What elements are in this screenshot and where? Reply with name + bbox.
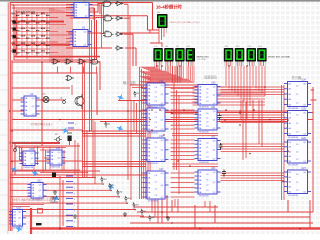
svg-text:U16: U16 [159,135,164,138]
svg-text:先行器: 先行器 [292,75,302,80]
svg-text:2: 2 [74,188,75,190]
svg-text:U24: U24 [302,79,307,82]
svg-text:输入控制: 输入控制 [123,80,136,85]
svg-text:3: 3 [74,194,75,196]
svg-text:a: a [75,124,76,126]
svg-text:U15: U15 [159,105,164,108]
svg-text:U30: U30 [29,148,34,151]
svg-text:_DECIMAL: _DECIMAL [196,58,208,61]
svg-text:秒脉冲发生电路,每一秒脉冲发出: 秒脉冲发生电路,每一秒脉冲发出 [9,141,44,145]
svg-text:U23: U23 [211,167,216,170]
svg-text:U32: U32 [37,180,42,183]
svg-text:74LS190N: 74LS190N [288,137,298,139]
svg-text:大约经过8秒左右进入: 大约经过8秒左右进入 [30,122,53,126]
svg-text:1: 1 [74,182,75,184]
svg-text:74LS190N: 74LS190N [288,164,298,166]
svg-text:LM555CM: LM555CM [51,166,61,168]
svg-text:SW1 SW2 SW3 SW4: SW1 SW2 SW3 SW4 [16,12,36,14]
svg-text:U31: U31 [56,147,61,150]
svg-text:U17: U17 [159,168,164,171]
svg-text:8: 8 [74,222,75,224]
svg-text:74LS190N: 74LS190N [148,132,158,134]
svg-text:74LS190N: 74LS190N [199,106,209,108]
svg-text:74LS190N: 74LS190N [199,131,209,133]
svg-text:74LS190N: 74LS190N [199,162,209,164]
svg-text:U21: U21 [211,106,216,109]
svg-text:9: 9 [74,227,75,229]
svg-text:16-4秒倒计时: 16-4秒倒计时 [156,4,182,11]
svg-text:SEVEN_SEG_DECIMAL_COM_K: SEVEN_SEG_DECIMAL_COM_K [170,21,201,24]
svg-text:SEVEN_SEG_DECIMAL: SEVEN_SEG_DECIMAL [268,56,291,59]
svg-text:U14: U14 [159,80,164,83]
svg-text:74LS190N: 74LS190N [148,200,158,202]
svg-text:U25: U25 [302,108,307,111]
svg-text:U20: U20 [211,82,216,85]
svg-text:LM555CM: LM555CM [24,167,34,169]
svg-text:74LS190N: 74LS190N [288,108,298,110]
svg-text:U22: U22 [211,136,216,139]
svg-text:74LS190N: 74LS190N [199,195,209,197]
svg-text:74LS190N: 74LS190N [148,163,158,165]
svg-text:6: 6 [74,210,75,212]
svg-text:设置密码: 设置密码 [204,75,217,80]
svg-text:74LS190N: 74LS190N [288,195,298,197]
svg-text:U33: U33 [17,207,22,210]
svg-text:U27: U27 [302,167,307,170]
svg-text:4: 4 [74,199,75,201]
svg-text:U26: U26 [302,137,307,140]
svg-text:1秒信号,由此开始计时1次(复位),手动复位: 1秒信号,由此开始计时1次(复位),手动复位 [12,198,56,202]
svg-text:5: 5 [74,205,75,207]
svg-text:0: 0 [74,177,75,179]
